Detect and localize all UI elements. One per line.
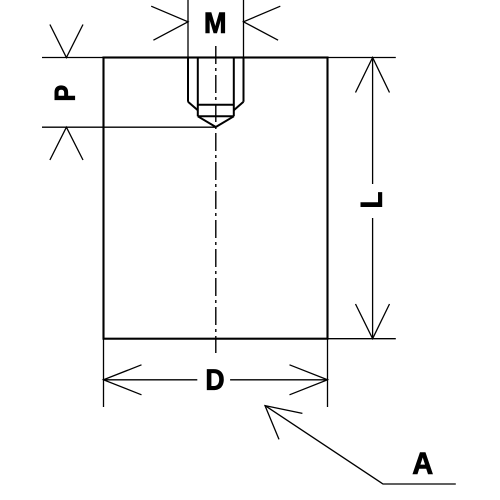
M arrow left (151, 6, 188, 40)
P arrow top (pointing down) (50, 25, 83, 58)
D arrow right (pointing right) (290, 365, 328, 395)
drill point cone right (216, 116, 234, 127)
L dimension line upper (372, 58, 374, 185)
D extension line right (327, 339, 329, 407)
tapped hole major diameter line left (187, 58, 189, 102)
label D (207, 370, 223, 390)
drill flat end line (198, 115, 234, 117)
P arrow bottom (pointing up) (50, 127, 83, 160)
tapped hole chamfer left (188, 102, 198, 111)
P depth extension line (42, 126, 216, 128)
label L (rotated) (361, 193, 382, 207)
D dimension line left segment (104, 379, 198, 381)
label A (413, 453, 432, 474)
thread end line (198, 104, 234, 106)
leader A line (265, 406, 456, 484)
L dimension line lower (372, 218, 374, 339)
top extension line left (P/top face) (42, 57, 104, 59)
top extension line right (L) (328, 57, 396, 59)
label P (rotated) (55, 86, 75, 100)
M arrow right (244, 6, 281, 40)
tapped hole major diameter line right (243, 58, 245, 102)
M extension line left (187, 0, 189, 58)
drill hole minor diameter line right (233, 58, 235, 117)
center line (dash-dot axis) (215, 46, 217, 353)
drill hole minor diameter line left (197, 58, 199, 117)
tapped hole chamfer right (234, 102, 244, 111)
D extension line left (103, 339, 105, 407)
drill point cone left (198, 116, 216, 127)
body outline (cylinder side view) (104, 58, 328, 339)
label M (206, 13, 225, 33)
bottom extension line right (L) (328, 338, 396, 340)
D dimension line right segment (230, 379, 327, 381)
L arrow bottom (pointing down) (356, 304, 390, 339)
D arrow left (pointing left) (104, 365, 142, 395)
L arrow top (pointing up) (356, 58, 390, 93)
M extension line right (243, 0, 245, 58)
leader A arrowhead (265, 406, 302, 440)
